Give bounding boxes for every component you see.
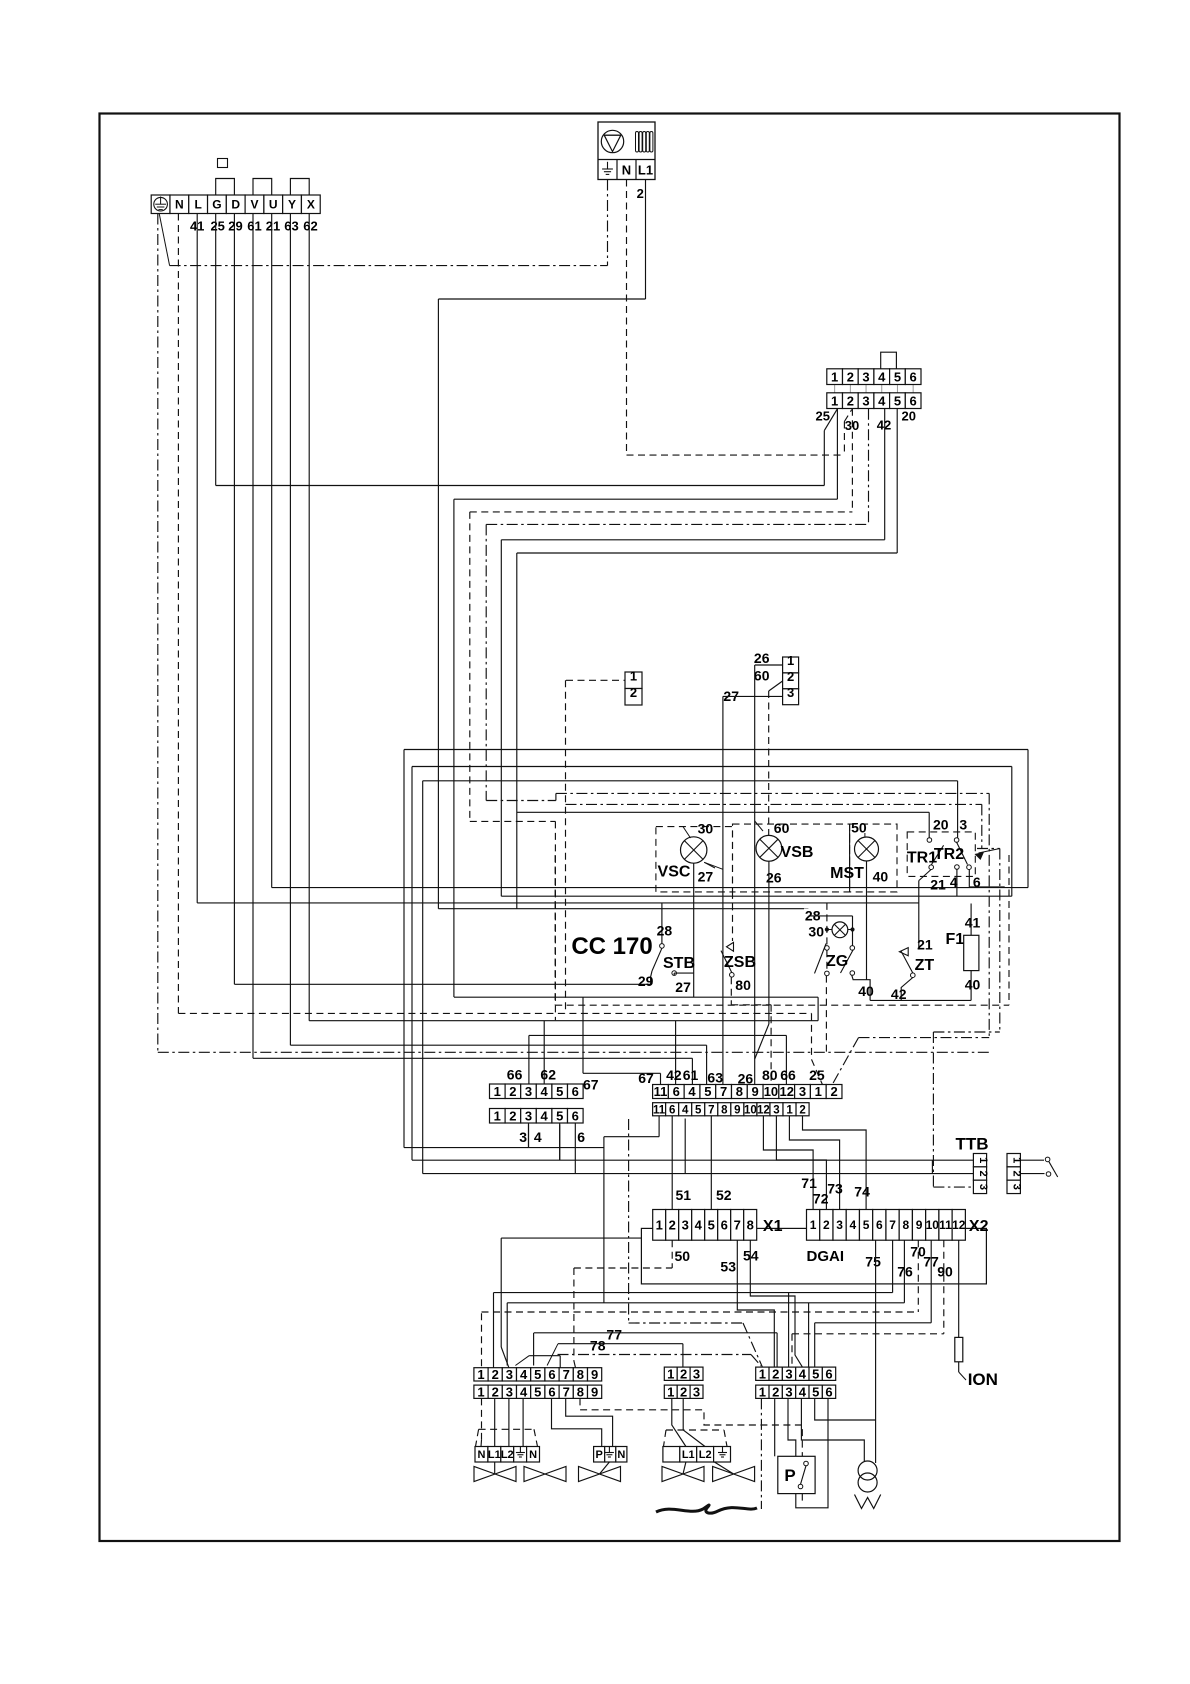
svg-text:2: 2 [492, 1367, 499, 1382]
svg-text:L1: L1 [638, 163, 653, 178]
svg-text:4: 4 [520, 1367, 528, 1382]
svg-text:4: 4 [849, 1218, 856, 1232]
svg-text:3: 3 [519, 1129, 527, 1145]
svg-text:2: 2 [823, 1218, 830, 1232]
svg-text:Y: Y [288, 198, 296, 212]
svg-text:80: 80 [735, 977, 751, 993]
svg-text:66: 66 [780, 1067, 796, 1083]
svg-text:54: 54 [743, 1248, 759, 1264]
svg-text:2: 2 [799, 1104, 805, 1116]
svg-text:6: 6 [548, 1384, 555, 1399]
svg-text:3: 3 [525, 1108, 532, 1123]
svg-text:4: 4 [878, 369, 886, 384]
svg-text:N: N [622, 163, 631, 178]
svg-text:26: 26 [754, 650, 770, 666]
svg-text:7: 7 [563, 1384, 570, 1399]
svg-text:9: 9 [916, 1218, 923, 1232]
svg-text:12: 12 [757, 1104, 770, 1116]
svg-text:29: 29 [228, 219, 242, 234]
svg-text:2: 2 [680, 1366, 687, 1381]
svg-text:ZG: ZG [826, 953, 848, 970]
svg-text:4: 4 [688, 1084, 696, 1099]
svg-text:1: 1 [810, 1218, 817, 1232]
svg-text:9: 9 [591, 1367, 598, 1382]
svg-text:1: 1 [831, 369, 838, 384]
svg-text:MST: MST [830, 865, 864, 882]
svg-text:2: 2 [669, 1218, 676, 1233]
svg-text:7: 7 [734, 1218, 741, 1233]
svg-text:5: 5 [534, 1384, 541, 1399]
svg-text:6: 6 [669, 1104, 675, 1116]
svg-text:X2: X2 [969, 1218, 989, 1235]
svg-text:27: 27 [675, 979, 691, 995]
svg-text:28: 28 [657, 922, 673, 938]
svg-text:TTB: TTB [955, 1135, 988, 1154]
svg-text:P: P [595, 1449, 602, 1461]
svg-text:3: 3 [1011, 1184, 1023, 1190]
svg-text:L1: L1 [488, 1449, 501, 1461]
svg-text:40: 40 [858, 983, 874, 999]
svg-text:N: N [175, 198, 184, 212]
svg-text:1: 1 [667, 1366, 674, 1381]
svg-text:8: 8 [577, 1384, 584, 1399]
svg-text:2: 2 [630, 685, 637, 700]
svg-text:66: 66 [507, 1067, 523, 1083]
svg-text:10: 10 [744, 1104, 757, 1116]
svg-text:2: 2 [847, 369, 854, 384]
svg-text:6: 6 [973, 874, 981, 890]
svg-text:12: 12 [779, 1084, 793, 1099]
svg-text:L1: L1 [682, 1449, 695, 1461]
svg-text:3: 3 [693, 1384, 700, 1399]
svg-text:7: 7 [708, 1104, 714, 1116]
svg-text:30: 30 [845, 418, 859, 433]
svg-text:V: V [250, 198, 258, 212]
svg-text:X: X [307, 198, 315, 212]
svg-text:52: 52 [716, 1187, 732, 1203]
svg-text:P: P [784, 1466, 795, 1485]
svg-text:20: 20 [933, 816, 949, 832]
svg-text:6: 6 [876, 1218, 883, 1232]
svg-text:6: 6 [577, 1129, 585, 1145]
svg-text:3: 3 [785, 1384, 792, 1399]
svg-text:1: 1 [977, 1157, 989, 1163]
svg-text:4: 4 [799, 1384, 807, 1399]
svg-text:VSB: VSB [781, 844, 814, 861]
svg-text:N: N [477, 1449, 485, 1461]
svg-text:50: 50 [675, 1248, 691, 1264]
svg-text:4: 4 [682, 1104, 689, 1116]
svg-text:2: 2 [492, 1384, 499, 1399]
svg-text:78: 78 [590, 1338, 606, 1354]
svg-text:5: 5 [863, 1218, 870, 1232]
svg-text:L2: L2 [699, 1449, 712, 1461]
svg-text:77: 77 [606, 1327, 622, 1343]
svg-text:63: 63 [707, 1070, 723, 1086]
svg-text:40: 40 [965, 976, 981, 992]
svg-text:3: 3 [773, 1104, 779, 1116]
svg-text:DGAI: DGAI [807, 1248, 845, 1265]
svg-text:2: 2 [680, 1384, 687, 1399]
svg-text:9: 9 [591, 1384, 598, 1399]
svg-text:6: 6 [910, 369, 917, 384]
svg-text:ION: ION [968, 1370, 998, 1389]
svg-text:40: 40 [873, 869, 889, 885]
svg-text:5: 5 [708, 1218, 715, 1233]
svg-text:62: 62 [540, 1067, 556, 1083]
svg-text:76: 76 [897, 1264, 913, 1280]
svg-text:1: 1 [477, 1367, 484, 1382]
svg-text:U: U [269, 198, 278, 212]
svg-text:3: 3 [785, 1366, 792, 1381]
svg-text:1: 1 [494, 1108, 501, 1123]
svg-text:5: 5 [556, 1084, 563, 1099]
svg-text:STB: STB [663, 955, 695, 972]
svg-text:61: 61 [683, 1067, 699, 1083]
svg-text:N: N [617, 1449, 625, 1461]
svg-text:4: 4 [534, 1129, 542, 1145]
svg-text:3: 3 [693, 1366, 700, 1381]
svg-text:6: 6 [721, 1218, 728, 1233]
svg-text:11: 11 [654, 1084, 668, 1099]
svg-text:1: 1 [815, 1084, 822, 1099]
svg-text:6: 6 [673, 1084, 680, 1099]
svg-text:2: 2 [830, 1084, 837, 1099]
svg-text:1: 1 [494, 1084, 501, 1099]
svg-text:4: 4 [520, 1384, 528, 1399]
svg-text:3: 3 [787, 685, 794, 700]
svg-text:1: 1 [787, 653, 794, 668]
svg-text:5: 5 [894, 393, 901, 408]
svg-text:3: 3 [506, 1367, 513, 1382]
svg-text:N: N [529, 1449, 537, 1461]
svg-text:1: 1 [786, 1104, 793, 1116]
svg-text:3: 3 [506, 1384, 513, 1399]
svg-text:1: 1 [477, 1384, 484, 1399]
svg-text:1: 1 [759, 1366, 766, 1381]
svg-text:L: L [194, 198, 201, 212]
svg-text:27: 27 [698, 869, 714, 885]
svg-text:1: 1 [759, 1384, 766, 1399]
svg-text:1: 1 [630, 668, 637, 683]
svg-text:10: 10 [926, 1218, 940, 1232]
svg-text:X1: X1 [763, 1218, 783, 1235]
svg-text:3: 3 [525, 1084, 532, 1099]
svg-text:3: 3 [862, 393, 869, 408]
svg-text:VSC: VSC [658, 864, 691, 881]
svg-text:61: 61 [247, 219, 261, 234]
svg-text:26: 26 [738, 1071, 754, 1087]
svg-text:5: 5 [695, 1104, 702, 1116]
svg-text:30: 30 [698, 821, 714, 837]
svg-text:7: 7 [720, 1084, 727, 1099]
svg-text:41: 41 [965, 915, 981, 931]
svg-text:7: 7 [563, 1367, 570, 1382]
svg-text:90: 90 [937, 1264, 953, 1280]
svg-text:60: 60 [754, 667, 770, 683]
svg-text:2: 2 [847, 393, 854, 408]
svg-text:5: 5 [556, 1108, 563, 1123]
svg-text:8: 8 [721, 1104, 728, 1116]
svg-text:60: 60 [774, 820, 790, 836]
svg-text:2: 2 [787, 669, 794, 684]
svg-text:63: 63 [284, 219, 298, 234]
svg-text:42: 42 [877, 418, 891, 433]
svg-text:2: 2 [509, 1084, 516, 1099]
svg-text:21: 21 [266, 219, 280, 234]
svg-text:3: 3 [862, 369, 869, 384]
svg-text:3: 3 [682, 1218, 689, 1233]
svg-text:6: 6 [572, 1084, 579, 1099]
svg-text:62: 62 [303, 219, 317, 234]
svg-text:8: 8 [577, 1367, 584, 1382]
svg-text:4: 4 [799, 1366, 807, 1381]
svg-text:TR2: TR2 [934, 846, 964, 863]
svg-text:42: 42 [666, 1067, 682, 1083]
svg-text:74: 74 [854, 1184, 870, 1200]
svg-text:53: 53 [720, 1259, 736, 1275]
svg-text:12: 12 [952, 1218, 966, 1232]
svg-text:1: 1 [667, 1384, 674, 1399]
svg-text:G: G [212, 198, 221, 212]
svg-text:3: 3 [836, 1218, 843, 1232]
svg-text:20: 20 [902, 409, 916, 424]
svg-text:4: 4 [878, 393, 886, 408]
svg-text:5: 5 [812, 1366, 819, 1381]
svg-text:29: 29 [638, 973, 654, 989]
svg-text:2: 2 [772, 1384, 779, 1399]
svg-text:8: 8 [902, 1218, 909, 1232]
svg-text:6: 6 [825, 1366, 832, 1381]
svg-text:1: 1 [656, 1218, 663, 1233]
svg-text:5: 5 [812, 1384, 819, 1399]
svg-text:5: 5 [534, 1367, 541, 1382]
svg-text:67: 67 [583, 1077, 599, 1093]
svg-text:F1: F1 [946, 931, 965, 948]
svg-text:D: D [231, 198, 240, 212]
svg-text:3: 3 [959, 816, 967, 832]
svg-text:25: 25 [816, 409, 830, 424]
svg-text:30: 30 [808, 923, 824, 939]
svg-text:3: 3 [977, 1184, 989, 1190]
svg-text:75: 75 [865, 1254, 881, 1270]
svg-text:L2: L2 [501, 1449, 514, 1461]
svg-text:CC 170: CC 170 [571, 933, 652, 960]
svg-text:ZSB: ZSB [724, 954, 756, 971]
svg-text:ZT: ZT [915, 957, 935, 974]
svg-text:5: 5 [704, 1084, 711, 1099]
svg-text:67: 67 [638, 1070, 654, 1086]
svg-text:21: 21 [930, 876, 946, 892]
svg-text:6: 6 [825, 1384, 832, 1399]
svg-text:21: 21 [917, 936, 933, 952]
svg-text:11: 11 [939, 1218, 952, 1232]
svg-text:11: 11 [653, 1104, 666, 1116]
svg-text:6: 6 [572, 1108, 579, 1123]
svg-text:4: 4 [695, 1218, 703, 1233]
svg-text:10: 10 [764, 1084, 778, 1099]
svg-text:80: 80 [762, 1067, 778, 1083]
svg-text:42: 42 [891, 986, 907, 1002]
svg-text:2: 2 [772, 1366, 779, 1381]
svg-text:51: 51 [676, 1187, 692, 1203]
svg-text:5: 5 [894, 369, 901, 384]
svg-text:4: 4 [540, 1084, 548, 1099]
svg-text:TR1: TR1 [907, 850, 937, 867]
svg-text:25: 25 [210, 219, 224, 234]
svg-text:9: 9 [734, 1104, 740, 1116]
svg-text:7: 7 [889, 1218, 896, 1232]
svg-text:2: 2 [977, 1170, 989, 1176]
svg-text:71: 71 [801, 1175, 817, 1191]
svg-text:1: 1 [831, 393, 838, 408]
svg-text:6: 6 [910, 393, 917, 408]
svg-text:8: 8 [747, 1218, 754, 1233]
svg-text:2: 2 [637, 186, 644, 201]
svg-text:6: 6 [548, 1367, 555, 1382]
svg-text:73: 73 [827, 1181, 843, 1197]
svg-text:25: 25 [809, 1067, 825, 1083]
svg-text:4: 4 [540, 1108, 548, 1123]
svg-text:2: 2 [509, 1108, 516, 1123]
svg-text:3: 3 [799, 1084, 806, 1099]
